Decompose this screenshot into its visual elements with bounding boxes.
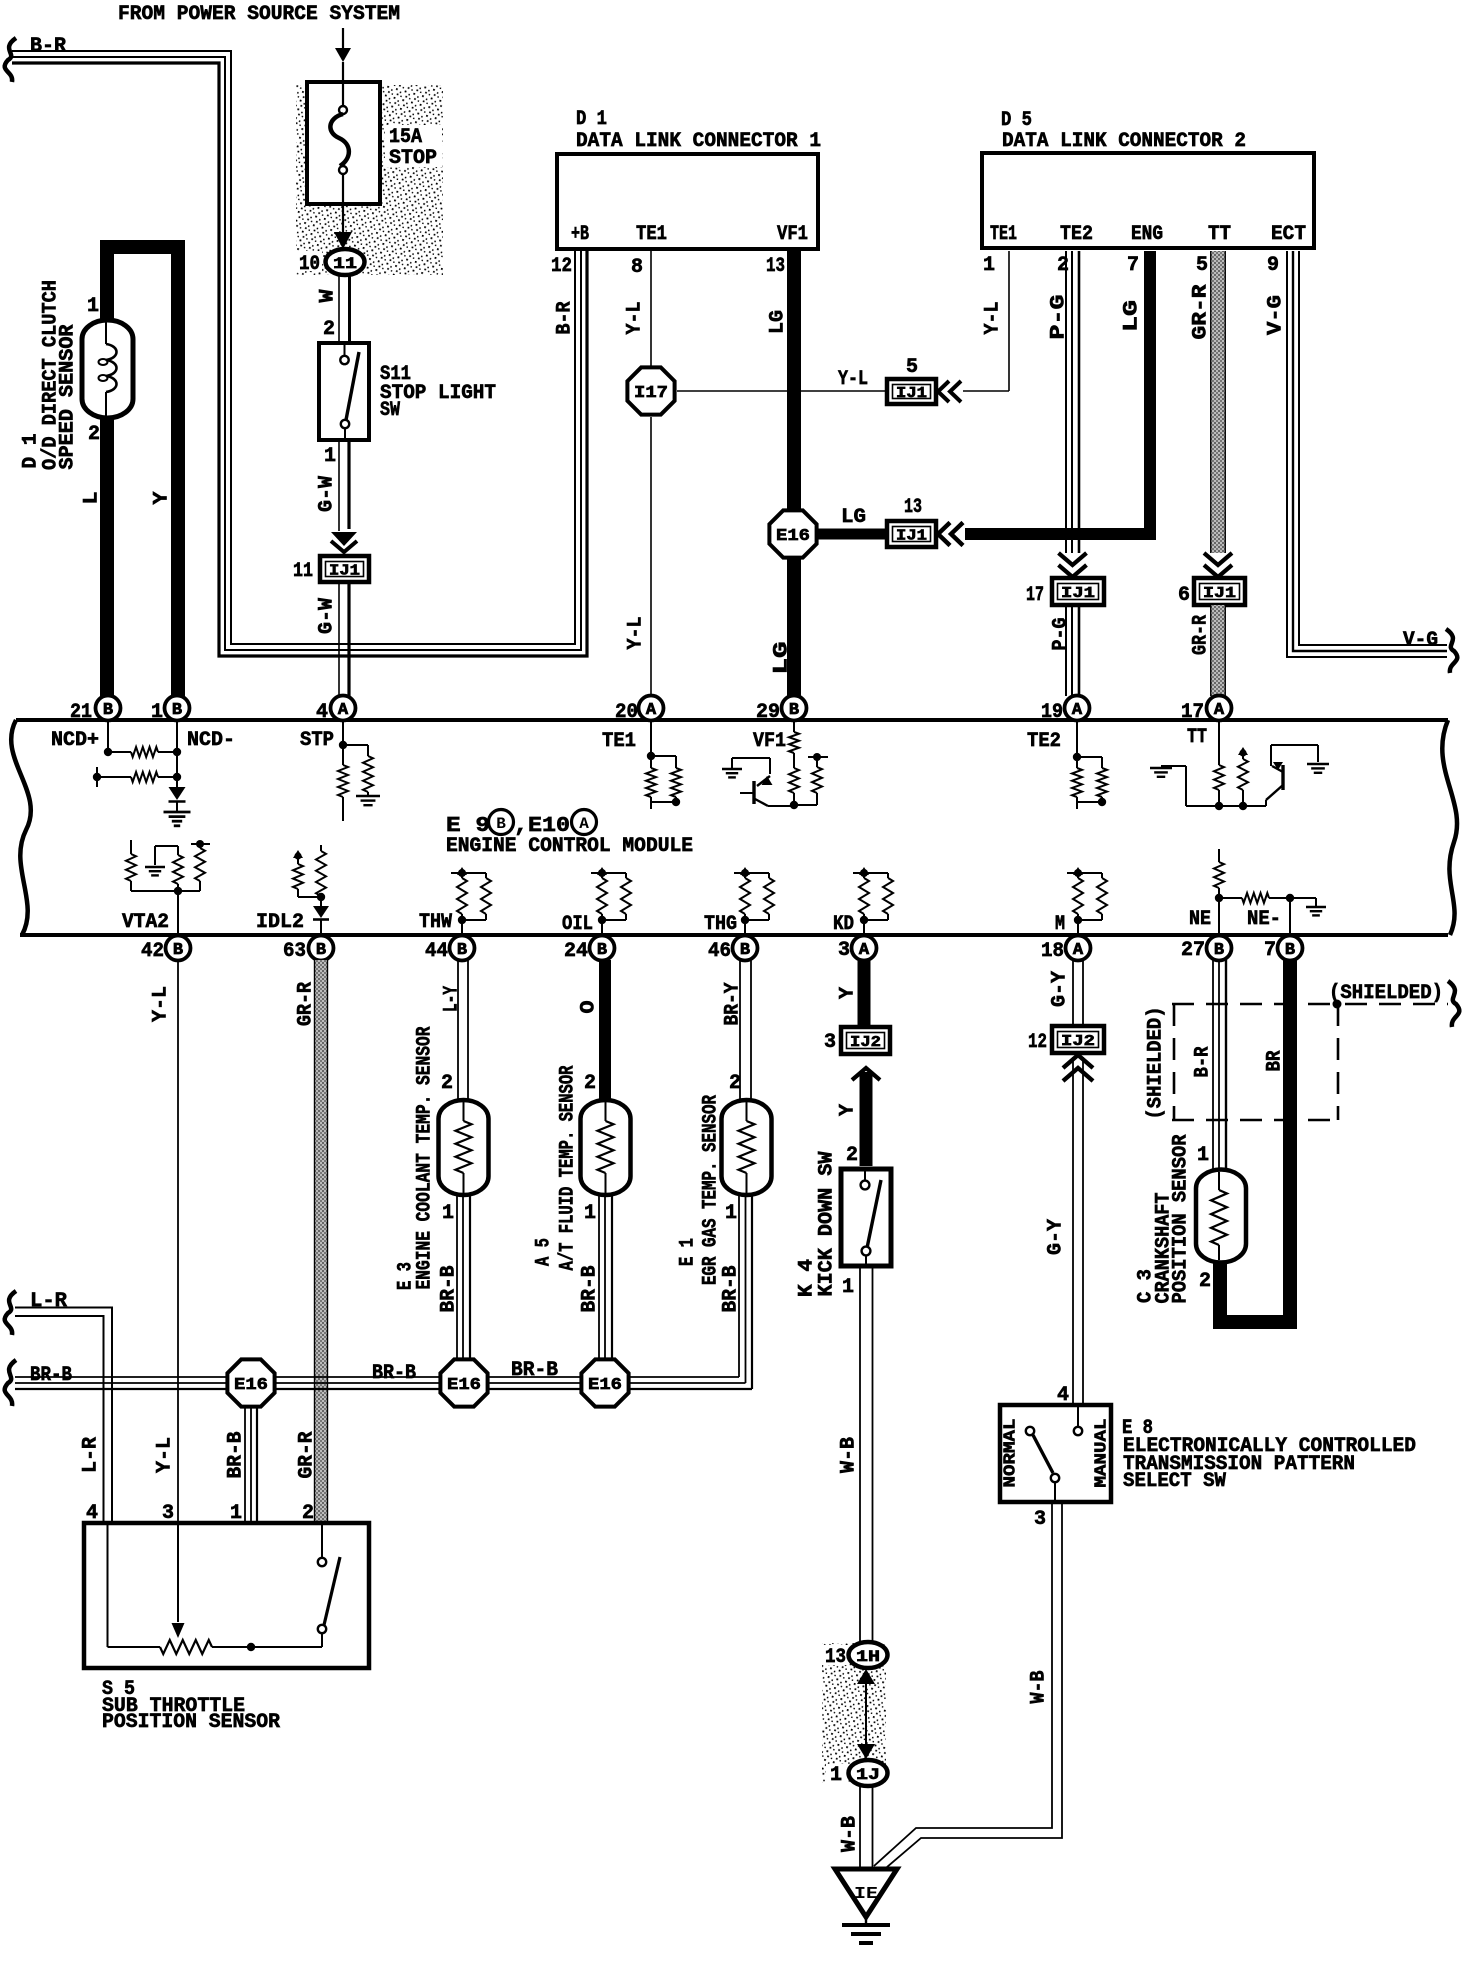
svg-text:B: B: [173, 941, 183, 960]
svg-text:POSITION SENSOR: POSITION SENSOR: [1170, 1135, 1193, 1304]
svg-text:OIL: OIL: [562, 913, 593, 936]
svg-text:2: 2: [441, 1072, 453, 1095]
arrow into IJ1 6: [1204, 553, 1232, 565]
ECM THW internal resistor pair: [458, 869, 466, 877]
svg-text:GR-R: GR-R: [1190, 615, 1213, 655]
EGR gas temp sensor E1: [722, 1100, 772, 1195]
svg-text:3: 3: [824, 1031, 836, 1054]
wire Y speed sensor bottom to NCD+: [100, 410, 114, 696]
svg-text:NORMAL: NORMAL: [1002, 1419, 1021, 1488]
ECM NE internal resistors: [1218, 849, 1220, 862]
svg-text:TE1: TE1: [636, 223, 667, 246]
svg-text:DATA LINK CONNECTOR 2: DATA LINK CONNECTOR 2: [1002, 130, 1246, 153]
wire Y-L from IJ1 5 to D5 TE1: [963, 390, 1009, 392]
svg-text:IJ2: IJ2: [1061, 1033, 1095, 1050]
ECM VF1 internal transistor: [793, 721, 795, 732]
ground symbol IE: [865, 1917, 867, 1924]
svg-text:SELECT SW: SELECT SW: [1123, 1470, 1226, 1493]
svg-text:Y-L: Y-L: [154, 1437, 177, 1473]
terminal 63 B IDL2: [309, 936, 334, 961]
svg-text:G-Y: G-Y: [1049, 971, 1072, 1007]
data link connector 1 D1: [557, 154, 818, 249]
svg-text:(SHIELDED): (SHIELDED): [1145, 1007, 1168, 1120]
switch S5: [321, 1525, 323, 1558]
svg-text:L-R: L-R: [80, 1437, 103, 1473]
wire W-B from K4 to 1H: [859, 1266, 861, 1642]
svg-text:E16: E16: [234, 1376, 268, 1395]
svg-text:GR-R: GR-R: [295, 982, 318, 1026]
svg-text:GR-R: GR-R: [296, 1432, 319, 1479]
svg-text:A: A: [579, 815, 589, 833]
O/D direct clutch speed sensor D1: [82, 320, 133, 418]
svg-text:24: 24: [564, 940, 588, 963]
wire W to stop light switch: [338, 275, 340, 343]
svg-text:Y-L: Y-L: [625, 617, 648, 650]
svg-text:E 1: E 1: [677, 1238, 700, 1266]
terminal 4 A STP: [331, 696, 356, 721]
ECM IDL2 internal resistors and diode: [320, 845, 322, 851]
svg-text:LG: LG: [1121, 300, 1144, 332]
svg-text:O: O: [578, 1001, 601, 1014]
crankshaft position sensor C3: [1196, 1170, 1246, 1263]
diode NCD-: [169, 787, 186, 800]
svg-text:A: A: [1214, 701, 1225, 720]
wire GR-R gray from IDL2 to S5: [315, 960, 328, 1523]
wire GR-R shielded gray from D5 TT: [1211, 251, 1226, 553]
svg-text:Y-L: Y-L: [838, 368, 868, 391]
svg-text:W-B: W-B: [838, 1437, 861, 1473]
svg-text:1: 1: [584, 1202, 596, 1225]
wire V-G from D5 ECT: [1287, 251, 1447, 657]
engine coolant temp sensor E3: [439, 1100, 489, 1195]
svg-text:B: B: [597, 941, 607, 960]
svg-text:20: 20: [615, 701, 638, 724]
svg-text:A 5: A 5: [533, 1238, 556, 1266]
svg-text:Y: Y: [151, 492, 174, 505]
arrow up below 1H: [857, 1669, 875, 1684]
wire LG thick from IJ1 13 to D5 ENG: [965, 251, 1150, 534]
ground TT right: [1307, 763, 1329, 765]
svg-text:IJ1: IJ1: [329, 563, 360, 580]
svg-text:THW: THW: [419, 911, 452, 934]
wire GR-R from IJ1 6 to ECM TT: [1211, 605, 1226, 696]
svg-text:IJ1: IJ1: [896, 385, 927, 402]
svg-text:E16: E16: [588, 1376, 622, 1395]
svg-text:B: B: [789, 701, 799, 720]
svg-text:L-R: L-R: [30, 1290, 67, 1313]
svg-text:+B: +B: [571, 223, 589, 246]
svg-text:BR-B: BR-B: [225, 1432, 248, 1479]
svg-text:2: 2: [846, 1144, 858, 1167]
ECM VTA2 internal resistors: [130, 840, 132, 854]
ground TT left: [1150, 767, 1172, 769]
wire B-R triple from NE to crankshaft sensor: [1212, 960, 1214, 1170]
svg-text:Y-L: Y-L: [624, 302, 647, 335]
terminal 7 B NE-: [1278, 936, 1303, 961]
svg-text:44: 44: [425, 940, 448, 963]
svg-text:2: 2: [1057, 254, 1069, 277]
svg-text:A: A: [1072, 701, 1083, 720]
transmission pattern select switch E8: [1000, 1405, 1111, 1502]
svg-text:B: B: [316, 941, 326, 960]
svg-text:TE1: TE1: [602, 730, 636, 753]
ECM STP internal resistors: [342, 721, 344, 745]
shield junction dot: [1333, 1000, 1342, 1009]
svg-text:3: 3: [1034, 1508, 1046, 1531]
svg-text:IJ2: IJ2: [850, 1034, 881, 1051]
svg-text:NCD+: NCD+: [51, 729, 99, 752]
break symbol B-R top left: [5, 38, 16, 82]
wire G-Y from IJ2 to E8: [1072, 1057, 1074, 1405]
svg-text:B: B: [103, 701, 113, 720]
svg-text:V-G: V-G: [1403, 629, 1438, 652]
svg-text:W-B: W-B: [839, 1816, 862, 1852]
ground NCD-: [164, 811, 191, 814]
terminal 17 A TT: [1207, 696, 1232, 721]
wire O thick from OIL to AT fluid sensor: [599, 960, 611, 1100]
arrow up into IJ2 3: [852, 1068, 880, 1080]
wire P-G from D5 TE2: [1065, 251, 1067, 553]
junction connector E16 on VF1 wire: [769, 510, 816, 557]
svg-text:A: A: [646, 701, 657, 720]
svg-text:E16: E16: [776, 527, 810, 546]
svg-text:LG: LG: [771, 642, 794, 675]
data link connector 2 D5: [982, 153, 1314, 248]
svg-text:BR-B: BR-B: [30, 1364, 72, 1387]
stop light switch S11: [319, 343, 369, 440]
resistor TT second: [1239, 749, 1246, 756]
svg-text:B: B: [457, 941, 467, 960]
svg-text:ENGINE CONTROL MODULE: ENGINE CONTROL MODULE: [446, 835, 693, 858]
ECM TE1 internal resistors: [650, 721, 652, 756]
svg-text:BR-B: BR-B: [372, 1362, 416, 1385]
wire L-Y from THW to coolant sensor: [457, 960, 459, 1100]
svg-text:B-R: B-R: [1192, 1047, 1215, 1078]
ECM KD internal resistor pair: [860, 869, 868, 877]
svg-text:ENGINE COOLANT TEMP. SENSOR: ENGINE COOLANT TEMP. SENSOR: [414, 1027, 437, 1290]
svg-text:V-G: V-G: [1265, 295, 1288, 335]
svg-text:B: B: [1214, 941, 1224, 960]
svg-text:29: 29: [756, 701, 780, 724]
svg-text:1: 1: [87, 295, 99, 318]
svg-text:I17: I17: [634, 384, 668, 403]
break symbol L-R left: [5, 1291, 16, 1335]
stipple highlight around fuse and connector 11: [296, 85, 443, 275]
svg-text:NE-: NE-: [1247, 908, 1281, 931]
svg-text:IDL2: IDL2: [256, 911, 304, 934]
svg-text:1: 1: [1197, 1144, 1209, 1167]
svg-text:G-W: G-W: [316, 598, 339, 634]
svg-text:VF1: VF1: [777, 223, 808, 246]
svg-text:POSITION SENSOR: POSITION SENSOR: [102, 1711, 280, 1734]
svg-text:5: 5: [1196, 254, 1208, 277]
break symbol V-G right: [1446, 629, 1457, 673]
svg-text:TT: TT: [1208, 223, 1231, 246]
svg-text:SPEED SENSOR: SPEED SENSOR: [57, 325, 80, 470]
ground connector IE: [835, 1869, 897, 1917]
svg-text:SW: SW: [380, 399, 400, 422]
svg-text:ECT: ECT: [1271, 223, 1306, 246]
sub throttle position sensor S5: [84, 1523, 369, 1668]
wire BR-B below E1 with corner: [738, 1195, 740, 1377]
svg-text:63: 63: [283, 940, 306, 963]
svg-text:2: 2: [1199, 1270, 1211, 1293]
svg-text:IJ1: IJ1: [1203, 585, 1236, 602]
svg-text:L-Y: L-Y: [441, 986, 464, 1012]
terminal 21 B NCD+: [107, 690, 109, 700]
svg-text:12: 12: [1028, 1031, 1047, 1054]
svg-text:18: 18: [1041, 940, 1064, 963]
svg-text:1H: 1H: [856, 1648, 880, 1666]
ground VF1 branch: [731, 758, 733, 768]
svg-text:TT: TT: [1187, 726, 1207, 749]
svg-text:13: 13: [825, 1646, 846, 1669]
svg-text:NE: NE: [1189, 908, 1211, 931]
svg-text:NCD-: NCD-: [187, 729, 235, 752]
svg-text:17: 17: [1181, 701, 1204, 724]
svg-text:19: 19: [1041, 701, 1063, 724]
svg-text:42: 42: [141, 940, 164, 963]
wire G-W from IJ1 to ECM STP: [338, 582, 340, 696]
terminal 19 A TE2: [1065, 696, 1090, 721]
svg-text:G-W: G-W: [316, 476, 339, 512]
svg-text:KD: KD: [833, 913, 854, 936]
svg-text:13: 13: [904, 496, 922, 519]
wire LG from E16 to junction IJ1 13: [818, 529, 887, 540]
svg-text:IJ1: IJ1: [1061, 585, 1095, 602]
wire W-B from E8 to ground IE: [874, 1502, 1052, 1866]
svg-text:M: M: [1055, 913, 1065, 936]
svg-text:TE2: TE2: [1060, 223, 1093, 246]
svg-text:THG: THG: [704, 913, 737, 936]
svg-text:ENG: ENG: [1131, 223, 1163, 246]
svg-text:1: 1: [842, 1276, 854, 1299]
diode IDL2: [313, 906, 329, 918]
svg-text:B-R: B-R: [554, 302, 577, 335]
svg-text:IJ1: IJ1: [896, 528, 927, 545]
wire BR-B horizontal bundle: [15, 1376, 739, 1378]
wire P-G from IJ1 17 to ECM TE2: [1065, 605, 1067, 696]
junction connector E16 row 1: [227, 1359, 274, 1406]
svg-text:17: 17: [1026, 584, 1044, 607]
svg-text:B: B: [1285, 941, 1295, 960]
svg-text:A: A: [1073, 941, 1084, 960]
junction connector E16 row 3: [581, 1359, 628, 1406]
wire from power source system: [342, 28, 344, 60]
svg-text:B-R: B-R: [30, 35, 66, 58]
svg-text:11: 11: [333, 255, 357, 273]
svg-text:P-G: P-G: [1048, 295, 1071, 340]
svg-text:5: 5: [906, 356, 918, 379]
terminal 1 B NCD-: [165, 696, 190, 721]
svg-text:4: 4: [316, 701, 328, 724]
wire LG thick from D1 VF1: [787, 251, 801, 534]
break symbol BR-B left: [5, 1360, 16, 1406]
svg-text:9: 9: [1267, 254, 1279, 277]
svg-text:46: 46: [708, 940, 731, 963]
wire LG from E16 to ECM VF1: [787, 558, 801, 696]
ECM TT internal transistor circuit: [1218, 721, 1220, 765]
stipple highlight 1H 1J: [822, 1643, 886, 1783]
svg-text:2: 2: [88, 423, 100, 446]
svg-text:15A: 15A: [389, 126, 422, 149]
wire BR thick from NE- to crank pin 2: [1220, 960, 1290, 1322]
svg-text:1: 1: [983, 254, 995, 277]
wire BR-B below E3: [456, 1195, 458, 1377]
svg-text:G-Y: G-Y: [1045, 1219, 1068, 1255]
svg-text:1: 1: [725, 1202, 737, 1225]
svg-text:1: 1: [830, 1764, 842, 1787]
svg-text:7: 7: [1264, 939, 1276, 962]
svg-text:1: 1: [151, 701, 163, 724]
junction connector 1J pin 1: [826, 1764, 848, 1783]
ECM TE2 internal resistors: [1076, 721, 1078, 757]
svg-text:D 1: D 1: [576, 108, 607, 131]
junction IJ1 pin 5: [887, 379, 936, 404]
wire L speed sensor loop thick: [107, 247, 178, 696]
svg-text:FROM POWER SOURCE SYSTEM: FROM POWER SOURCE SYSTEM: [118, 3, 400, 26]
engine control module body: [16, 718, 1448, 722]
svg-text:1: 1: [324, 445, 336, 468]
svg-text:E16: E16: [447, 1376, 481, 1395]
junction IJ1 pin 11: [320, 556, 369, 582]
wire fuse to junction 11: [342, 204, 344, 232]
terminal 29 B VF1: [782, 696, 807, 721]
svg-text:BR-B: BR-B: [511, 1359, 558, 1382]
svg-text:2: 2: [323, 318, 335, 341]
ground NE-: [1306, 906, 1326, 908]
arrow into IJ1 17: [1059, 553, 1087, 565]
svg-text:BR-B: BR-B: [720, 1266, 743, 1313]
ECM THG internal resistor pair: [741, 869, 749, 877]
junction IJ1 pin 13: [887, 521, 936, 547]
arrow down above 1J: [857, 1744, 875, 1759]
wiper arrow S5: [177, 1525, 179, 1622]
svg-text:LG: LG: [767, 310, 790, 334]
terminal 42 B VTA2: [166, 936, 191, 961]
wire L-R from break to S5: [15, 1308, 112, 1524]
svg-text:W-B: W-B: [1028, 1671, 1051, 1704]
svg-text:1J: 1J: [856, 1766, 880, 1784]
label 15A STOP: [385, 125, 442, 167]
svg-text:Y: Y: [837, 1104, 860, 1116]
svg-text:STOP: STOP: [389, 147, 437, 170]
svg-text:27: 27: [1181, 939, 1205, 962]
junction connector I17: [627, 367, 674, 414]
svg-text:13: 13: [766, 255, 785, 278]
svg-text:TE1: TE1: [990, 223, 1017, 246]
svg-text:12: 12: [551, 255, 572, 278]
svg-text:D 5: D 5: [1001, 109, 1032, 132]
svg-text:BR-Y: BR-Y: [722, 983, 745, 1026]
wire Y thick from KD to IJ2: [858, 960, 871, 1028]
wire Y-L from I17 to ECM TE1: [650, 417, 652, 696]
svg-text:Y-L: Y-L: [150, 986, 173, 1022]
svg-text:A: A: [338, 701, 349, 720]
svg-text:(SHIELDED): (SHIELDED): [1329, 982, 1443, 1005]
svg-text:21: 21: [70, 701, 92, 724]
terminal 27 B NE: [1207, 936, 1232, 961]
svg-text:BR: BR: [1264, 1051, 1287, 1072]
svg-text:B: B: [496, 815, 506, 833]
svg-text:7: 7: [1127, 254, 1139, 277]
resistor VF1 right branch: [808, 756, 828, 758]
break symbol shielded right: [1448, 981, 1459, 1027]
svg-text:L: L: [81, 492, 104, 505]
svg-text:VTA2: VTA2: [122, 911, 169, 934]
wire Y-L from VTA2 to S5: [177, 960, 179, 1523]
svg-text:KICK DOWN SW: KICK DOWN SW: [816, 1152, 839, 1297]
terminal 20 A TE1: [639, 696, 664, 721]
terminal 46 B THG: [733, 936, 758, 961]
wire G-W from S11 to junction IJ1: [338, 440, 340, 531]
ground VTA2: [145, 866, 165, 868]
junction connector E16 row 2: [440, 1359, 487, 1406]
svg-text:LG: LG: [841, 506, 866, 529]
svg-text:Y-L: Y-L: [982, 302, 1005, 335]
wire G-Y from M to IJ2: [1072, 960, 1074, 1027]
svg-text:BR-B: BR-B: [579, 1266, 602, 1313]
wire BR-B below A5: [598, 1195, 600, 1377]
svg-text:1: 1: [442, 1202, 454, 1225]
svg-text:2: 2: [729, 1072, 741, 1095]
svg-text:DATA LINK CONNECTOR 1: DATA LINK CONNECTOR 1: [576, 130, 821, 153]
ECM M internal resistor pair: [1074, 869, 1082, 877]
svg-text:3: 3: [838, 939, 850, 962]
wire BR-Y from THG to EGR sensor: [739, 960, 741, 1100]
svg-text:STP: STP: [300, 729, 334, 752]
svg-text:BR-B: BR-B: [438, 1266, 461, 1313]
svg-text:P-G: P-G: [1050, 618, 1073, 651]
ECM OIL internal resistor pair: [598, 869, 606, 877]
svg-text:6: 6: [1178, 584, 1190, 607]
terminal 24 B OIL: [590, 936, 615, 961]
A/T fluid temp sensor A5: [581, 1100, 631, 1195]
svg-text:11: 11: [293, 560, 313, 583]
svg-text:IE: IE: [854, 1885, 878, 1904]
junction connector 1H pin 13: [820, 1645, 848, 1665]
wire Y-L from I17 to junction IJ1 5: [677, 390, 887, 392]
svg-text:W: W: [317, 290, 340, 303]
wire Y-L from D1 TE1: [650, 251, 652, 366]
svg-text:A/T FLUID TEMP. SENSOR: A/T FLUID TEMP. SENSOR: [557, 1066, 580, 1271]
svg-text:GR-R: GR-R: [1190, 285, 1213, 340]
ECM NCD internal resistors: [107, 721, 109, 752]
wire Y thick to kick down switch: [860, 1072, 873, 1166]
ground STP branch: [356, 795, 380, 797]
shield dashed box crankshaft: [1172, 1004, 1448, 1120]
wire W-B from 1J to ground IE: [859, 1786, 861, 1868]
wire BR-B from E16 down to S5: [244, 1408, 246, 1523]
transistor TT: [1281, 765, 1284, 790]
svg-text:EGR GAS TEMP. SENSOR: EGR GAS TEMP. SENSOR: [700, 1095, 723, 1285]
terminal 44 B THW: [450, 936, 475, 961]
svg-text:VF1: VF1: [753, 730, 786, 753]
svg-text:MANUAL: MANUAL: [1093, 1419, 1112, 1488]
svg-text:2: 2: [584, 1072, 596, 1095]
kick down switch K4: [841, 1169, 891, 1266]
svg-text:8: 8: [631, 256, 643, 279]
fuse 15A STOP: [307, 82, 380, 204]
svg-text:Y: Y: [837, 987, 860, 999]
wire B-R bundle from power source loop: [12, 51, 575, 644]
terminal 18 A M: [1066, 936, 1091, 961]
arrow up into IJ2 12: [1063, 1068, 1093, 1081]
terminal 3 A KD: [852, 936, 877, 961]
svg-text:10: 10: [299, 253, 320, 276]
junction connector 11 pin 10: [296, 251, 322, 271]
svg-text:B: B: [172, 701, 182, 720]
